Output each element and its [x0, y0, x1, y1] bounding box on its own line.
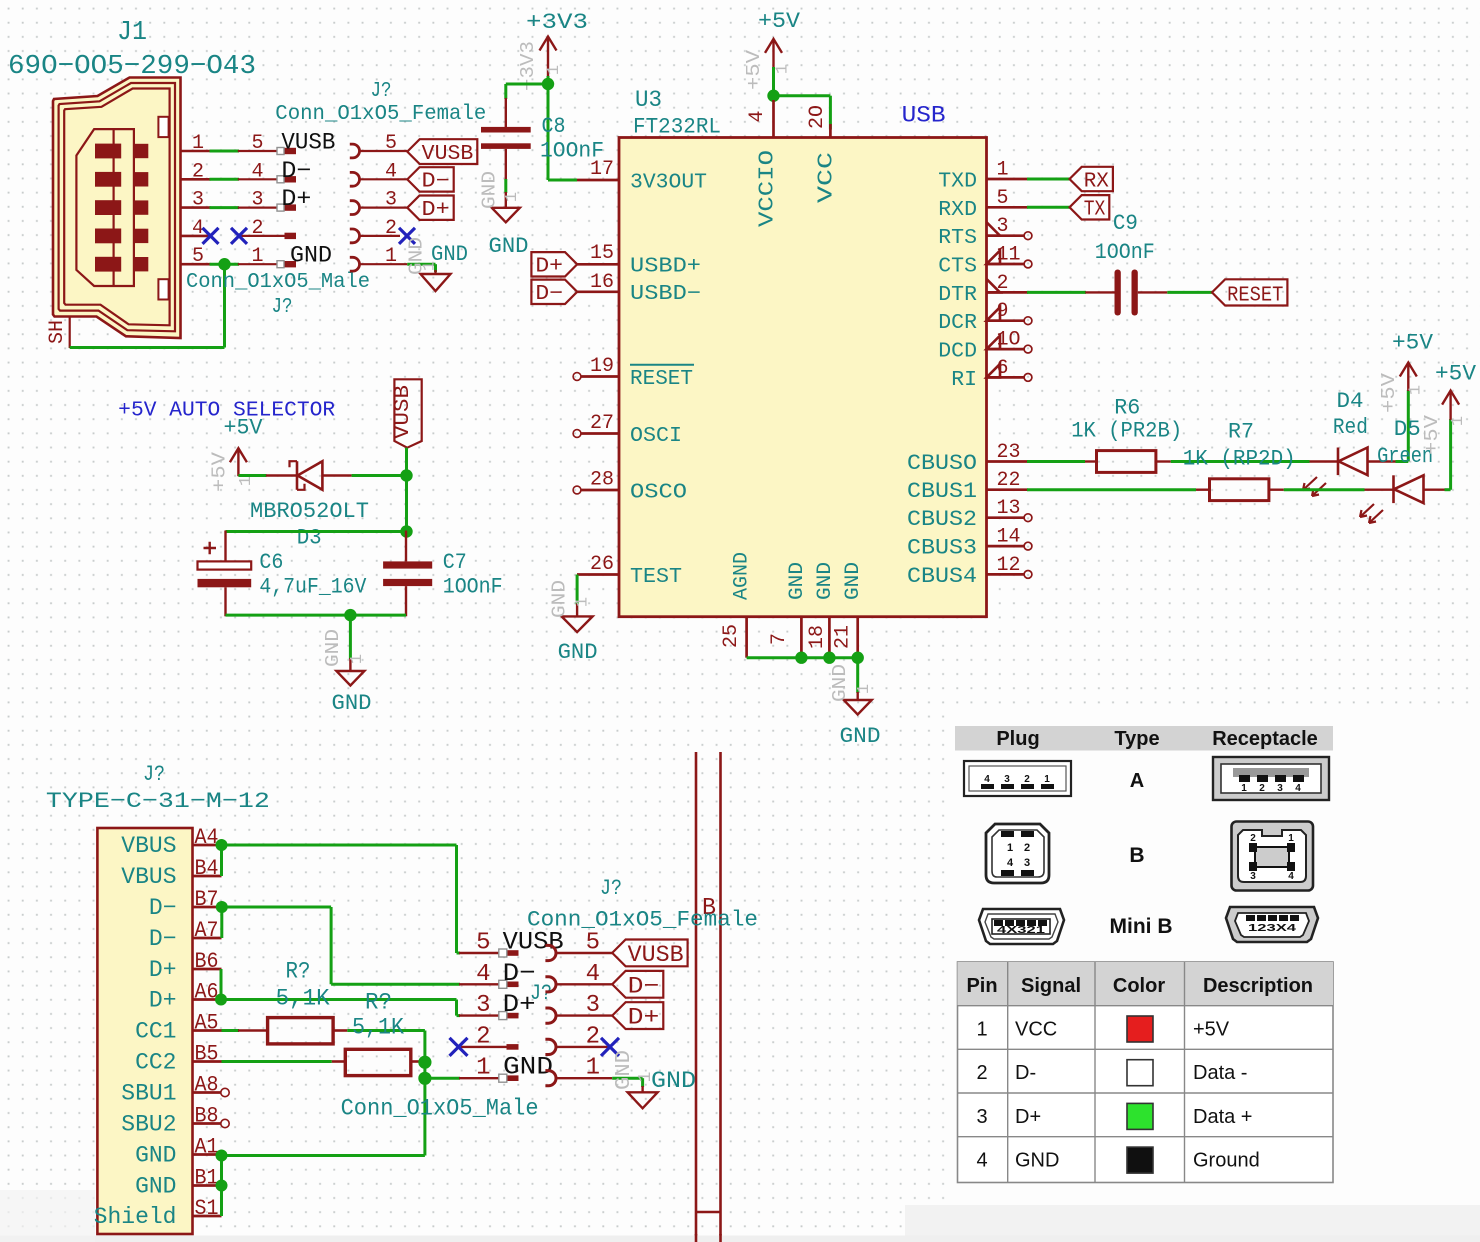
svg-text:4: 4 — [385, 160, 397, 183]
svg-text:3: 3 — [1250, 871, 1256, 882]
svg-text:VCC: VCC — [816, 152, 839, 203]
global label D- to pin16 — [531, 280, 577, 304]
svg-text:1: 1 — [476, 1055, 490, 1082]
svg-text:D+: D+ — [422, 199, 450, 222]
svg-text:+5V: +5V — [1392, 331, 1434, 356]
svg-text:RESET: RESET — [630, 368, 693, 391]
svg-text:S1: S1 — [195, 1196, 219, 1221]
IC U3 FT232RL body — [619, 138, 987, 617]
svg-text:Conn_O1xO5_Male: Conn_O1xO5_Male — [341, 1096, 539, 1122]
svg-text:Data +: Data + — [1193, 1106, 1252, 1128]
svg-text:4,7uF_16V: 4,7uF_16V — [259, 575, 367, 600]
wire CC1 to R? — [222, 1029, 240, 1032]
svg-text:2: 2 — [1024, 774, 1030, 785]
svg-text:1: 1 — [545, 65, 564, 75]
bottom margin band — [905, 1205, 1480, 1242]
svg-text:CTS: CTS — [938, 255, 977, 279]
svg-text:+5V: +5V — [758, 9, 801, 34]
svg-text:USB: USB — [902, 103, 946, 129]
svg-text:Red: Red — [1333, 415, 1368, 440]
svg-text:4: 4 — [1007, 857, 1014, 869]
svg-text:GND: GND — [135, 1143, 176, 1169]
svg-text:GND: GND — [786, 562, 809, 600]
svg-text:Description: Description — [1203, 975, 1313, 997]
svg-text:Signal: Signal — [1021, 975, 1081, 997]
svg-text:27: 27 — [590, 412, 614, 435]
svg-text:A6: A6 — [195, 980, 219, 1005]
svg-text:GND: GND — [332, 691, 372, 716]
svg-text:5: 5 — [251, 132, 263, 155]
wire R6 to D4 — [1171, 460, 1310, 463]
capacitor C9 100nF — [1085, 291, 1114, 293]
wire VUSB tag down to junctions — [405, 448, 408, 532]
svg-text:B5: B5 — [195, 1042, 219, 1067]
svg-text:D−: D− — [281, 158, 311, 184]
capacitor C8 100nF — [505, 98, 507, 127]
U3 pin 12 CBUS4 — [987, 573, 1025, 576]
svg-text:5: 5 — [476, 930, 490, 957]
svg-text:4: 4 — [1295, 783, 1301, 794]
svg-text:15: 15 — [590, 242, 614, 265]
svg-text:TYPE−C−31−M−12: TYPE−C−31−M−12 — [46, 789, 270, 814]
global label D- (bottom female) — [612, 971, 663, 998]
svg-text:Color: Color — [1113, 975, 1165, 997]
svg-text:1: 1 — [237, 476, 256, 486]
wire J1 pin2 to J2 pin4 — [210, 178, 240, 181]
svg-text:1: 1 — [1007, 842, 1013, 854]
wire J1 pin1 to J2 pin5 — [210, 150, 240, 153]
wire RXD to TX label — [1027, 206, 1071, 209]
svg-text:+5V: +5V — [1193, 1019, 1230, 1041]
svg-text:DCR: DCR — [938, 311, 977, 335]
wire TXD to RX label — [1027, 178, 1071, 181]
U3 pin 22 CBUS1 — [987, 488, 1029, 491]
connector J? TYPE-C-31-M-12 body — [97, 828, 192, 1234]
wire R7 to D5 — [1284, 488, 1365, 491]
wire VBUS A4 to male pin5 — [222, 844, 457, 847]
svg-text:69O−OO5−299−O43: 69O−OO5−299−O43 — [8, 52, 256, 82]
svg-text:5: 5 — [385, 132, 397, 155]
svg-text:5: 5 — [997, 187, 1009, 210]
U3 pin 23 CBUS0 — [987, 460, 1029, 463]
svg-text:Plug: Plug — [996, 728, 1039, 750]
svg-text:3: 3 — [476, 992, 490, 1019]
no-connect x female pin2 — [399, 228, 415, 244]
svg-text:R7: R7 — [1228, 420, 1254, 445]
svg-text:+5V: +5V — [1421, 414, 1443, 455]
power symbol GND (C8) — [505, 192, 507, 208]
TYPE-C pin B7 D− — [193, 906, 222, 909]
svg-text:MBRO52OLT: MBRO52OLT — [250, 499, 369, 524]
svg-text:J?: J? — [371, 80, 392, 103]
TYPE-C pin B5 CC2 — [193, 1060, 222, 1063]
svg-text:TX: TX — [1084, 199, 1106, 222]
resistor R? 5,1K (CC2) — [332, 1060, 346, 1063]
svg-text:7: 7 — [768, 633, 791, 645]
svg-text:GND: GND — [840, 724, 881, 749]
svg-text:SH: SH — [46, 320, 69, 344]
U3 pin 18 GND — [828, 617, 831, 658]
svg-text:1: 1 — [1044, 774, 1050, 785]
wire J1 SH to GND net — [70, 346, 225, 349]
svg-text:A1: A1 — [195, 1135, 219, 1160]
bus rung — [696, 1211, 721, 1213]
svg-text:+5V: +5V — [224, 416, 264, 441]
TYPE-C pin B4 VBUS — [193, 875, 222, 878]
svg-text:19: 19 — [590, 355, 614, 378]
wire C8 to GND — [504, 179, 507, 193]
svg-text:C8: C8 — [542, 114, 566, 139]
wire D3 to VUSB node — [352, 474, 406, 477]
svg-text:D+: D+ — [149, 988, 177, 1014]
svg-text:FT232RL: FT232RL — [633, 115, 721, 140]
svg-text:1: 1 — [997, 159, 1009, 182]
svg-text:GND: GND — [290, 243, 332, 269]
svg-text:A: A — [1130, 770, 1144, 792]
svg-text:1: 1 — [1449, 416, 1468, 426]
svg-text:A8: A8 — [195, 1073, 219, 1098]
svg-text:2: 2 — [976, 1062, 987, 1084]
power symbol GND (bottom female) — [641, 1086, 643, 1093]
wire ground bus under U3 — [747, 656, 858, 659]
svg-text:4: 4 — [586, 961, 600, 988]
power symbol GND (selector) — [349, 658, 351, 672]
wire D- B7-A7 tie — [220, 907, 223, 938]
svg-text:D−: D− — [149, 895, 177, 921]
svg-text:RI: RI — [951, 368, 977, 392]
svg-text:2: 2 — [1259, 783, 1265, 794]
svg-text:B6: B6 — [195, 949, 219, 974]
svg-text:GND: GND — [479, 171, 501, 209]
svg-text:J?: J? — [143, 762, 165, 787]
svg-text:5: 5 — [586, 930, 600, 957]
svg-text:TXD: TXD — [938, 170, 977, 194]
U3 pin 14 CBUS3 — [987, 545, 1025, 548]
usb pin table — [958, 962, 1334, 1183]
svg-text:C7: C7 — [443, 550, 467, 575]
svg-text:3: 3 — [586, 992, 600, 1019]
svg-text:OSCI: OSCI — [630, 425, 682, 448]
svg-text:Type: Type — [1114, 728, 1159, 750]
svg-text:1: 1 — [385, 245, 397, 268]
svg-text:D−: D− — [535, 283, 563, 306]
svg-text:C6: C6 — [259, 550, 283, 575]
svg-text:DTR: DTR — [938, 283, 977, 307]
svg-text:Conn_O1xO5_Female: Conn_O1xO5_Female — [527, 908, 758, 933]
usb type A receptacle drawing — [1213, 757, 1329, 800]
wire J1 pin3 to J2 pin3 — [210, 206, 240, 209]
U3 pin 10 DCD — [987, 348, 1025, 351]
global label VUSB (vertical) — [394, 379, 421, 447]
U3 pin 4 VCCIO — [772, 100, 775, 138]
wire R? CC1 out to junction — [347, 1029, 425, 1032]
wire D+ B6-A6 tie — [220, 969, 223, 1000]
svg-text:J?: J? — [530, 981, 552, 1006]
usb mini B plug drawing — [979, 909, 1064, 944]
diode D3 MBR0520LT (schottky) — [266, 474, 297, 476]
svg-text:D+: D+ — [628, 1005, 660, 1031]
svg-text:GND: GND — [135, 1174, 176, 1200]
no-connect x J1 pin4 — [203, 228, 219, 244]
connector J? Conn_01x05_Male (top) — [238, 150, 285, 152]
TYPE-C pin A7 D− — [193, 937, 222, 940]
U3 pin 25 AGND — [745, 617, 748, 658]
power symbol GND (TEST) — [576, 604, 578, 618]
svg-text:GND: GND — [1015, 1150, 1059, 1172]
svg-text:2O: 2O — [806, 105, 829, 129]
vertical bus line 2 lower end — [719, 1234, 722, 1242]
U3 pin 7 GND — [800, 617, 803, 658]
svg-text:DCD: DCD — [938, 340, 977, 364]
svg-text:4: 4 — [976, 1150, 987, 1172]
U3 pin 20 VCC — [829, 124, 832, 138]
svg-text:CBUSO: CBUSO — [907, 451, 977, 476]
svg-text:Data -: Data - — [1193, 1062, 1247, 1084]
LED D4 Red — [1310, 460, 1339, 462]
U3 pin 6 RI — [987, 376, 1025, 379]
svg-text:VCC: VCC — [1015, 1019, 1057, 1041]
svg-text:18: 18 — [806, 625, 829, 649]
svg-text:3: 3 — [1277, 783, 1283, 794]
svg-text:Receptacle: Receptacle — [1212, 728, 1318, 750]
svg-text:RX: RX — [1084, 170, 1110, 193]
U3 pin 21 GND — [856, 617, 859, 658]
global label TX — [1070, 195, 1110, 219]
connector J? Conn_01x05_Male (bottom) — [459, 952, 507, 954]
resistor R6 1K (PR2B) — [1085, 460, 1097, 462]
svg-text:1K (PR2B): 1K (PR2B) — [1071, 419, 1182, 444]
wire J1 pin5 to J2 pin1 (GND) — [210, 263, 240, 266]
TYPE-C pin B6 D+ — [193, 968, 222, 971]
svg-text:2: 2 — [1250, 833, 1256, 844]
svg-text:28: 28 — [590, 469, 614, 492]
svg-text:4: 4 — [1288, 871, 1294, 882]
wire D5 to +5V — [1445, 488, 1451, 491]
svg-text:1: 1 — [1288, 833, 1294, 844]
U3 pin 2 DTR — [987, 291, 1029, 294]
svg-text:3: 3 — [385, 189, 397, 212]
svg-text:21: 21 — [832, 625, 855, 649]
no-connect x J2-male pin2 — [231, 228, 247, 244]
svg-text:3: 3 — [1024, 857, 1030, 869]
label anchors bottom male — [499, 949, 507, 957]
svg-text:2: 2 — [385, 217, 397, 240]
svg-text:CBUS1: CBUS1 — [907, 479, 977, 504]
svg-text:5,1K: 5,1K — [276, 986, 330, 1012]
svg-text:1: 1 — [348, 654, 367, 664]
junction bottom GND — [344, 609, 356, 621]
svg-text:3: 3 — [1004, 774, 1010, 785]
global label RX — [1070, 167, 1113, 191]
global label VUSB (bottom female) — [612, 940, 687, 967]
svg-text:GND: GND — [842, 562, 865, 600]
svg-text:GND: GND — [651, 1068, 696, 1094]
svg-text:R?: R? — [286, 959, 311, 985]
wire junction to male pin1 GND — [425, 1077, 460, 1080]
svg-text:J?: J? — [600, 876, 622, 901]
svg-text:+3V3: +3V3 — [526, 10, 588, 35]
wire CC2 to R? — [222, 1060, 332, 1063]
resistor R7 1K (RP2D) — [1196, 489, 1210, 491]
svg-text:VCCIO: VCCIO — [757, 150, 780, 227]
svg-text:USBD+: USBD+ — [630, 256, 701, 279]
vertical bus line 1 — [695, 752, 698, 1242]
svg-text:R?: R? — [365, 990, 392, 1016]
svg-text:J?: J? — [272, 296, 293, 319]
svg-text:B8: B8 — [195, 1104, 219, 1129]
LED D5 Green — [1365, 489, 1394, 491]
svg-text:GND: GND — [431, 242, 468, 267]
wire C6/C7 bottom bus — [226, 614, 407, 617]
svg-text:13: 13 — [997, 497, 1021, 520]
svg-text:SBU1: SBU1 — [121, 1081, 176, 1107]
U3 pin 11 CTS — [987, 263, 1025, 266]
svg-text:CBUS4: CBUS4 — [907, 564, 977, 589]
svg-text:RXD: RXD — [938, 198, 977, 222]
svg-text:2: 2 — [586, 1023, 600, 1050]
wire +5V to D3 — [238, 474, 266, 477]
TYPE-C pin B8 SBU2 — [193, 1122, 222, 1125]
svg-text:2: 2 — [1024, 842, 1030, 854]
svg-text:16: 16 — [590, 271, 614, 294]
wire TEST to GND — [576, 575, 579, 605]
svg-text:1: 1 — [855, 684, 874, 694]
connector J1 690-005-299-043 (USB Mini-B) body — [53, 78, 181, 339]
svg-text:1: 1 — [586, 1055, 600, 1082]
svg-text:VBUS: VBUS — [121, 864, 176, 890]
junction CC nets — [418, 1056, 431, 1069]
svg-text:Ground: Ground — [1193, 1150, 1260, 1172]
U3 pin 17 3V3OUT — [577, 179, 619, 182]
svg-text:12: 12 — [997, 554, 1021, 577]
junction GND pins — [795, 652, 807, 664]
wire D4 to +5V — [1396, 460, 1409, 463]
svg-text:26: 26 — [590, 553, 614, 576]
svg-text:D−: D− — [628, 973, 660, 999]
svg-text:USBD−: USBD− — [630, 283, 701, 306]
junction D3/VUSB — [400, 469, 412, 481]
svg-text:GND: GND — [489, 234, 529, 259]
global label D+ (bottom female) — [612, 1002, 663, 1029]
wire +3V3 to C8 and pin 17 — [547, 76, 550, 180]
svg-text:+5V: +5V — [1378, 372, 1400, 413]
resistor R? 5,1K (CC1) — [238, 1029, 268, 1032]
svg-text:2: 2 — [192, 160, 204, 183]
svg-text:1: 1 — [976, 1019, 987, 1041]
usb type B plug drawing — [986, 824, 1049, 883]
svg-text:4: 4 — [251, 160, 263, 183]
wire C9 to RESET label — [1167, 291, 1212, 294]
wire to GND (selector) — [349, 615, 352, 659]
capacitor C6 4,7uF_16V (polarized) — [224, 531, 226, 562]
svg-text:1: 1 — [574, 597, 593, 607]
svg-text:B7: B7 — [195, 887, 219, 912]
vertical bus line 2 — [719, 752, 722, 1242]
usb type A plug drawing — [964, 761, 1071, 796]
svg-text:1K (RP2D): 1K (RP2D) — [1183, 447, 1296, 472]
svg-text:C9: C9 — [1113, 211, 1138, 236]
svg-text:D+: D+ — [535, 256, 563, 279]
svg-text:1OOnF: 1OOnF — [1095, 240, 1155, 265]
svg-text:1: 1 — [1241, 783, 1247, 794]
power symbol GND (top pair) — [434, 270, 436, 274]
U3 pin 3 RTS — [987, 234, 1025, 237]
svg-text:Mini B: Mini B — [1110, 915, 1173, 938]
global label VUSB (top female) — [407, 139, 477, 164]
U3 pin 27 OSCI — [581, 432, 619, 435]
svg-text:Pin: Pin — [966, 975, 997, 997]
svg-text:4: 4 — [476, 961, 490, 988]
junction B7 — [216, 901, 228, 913]
junction A1 — [216, 1150, 228, 1162]
svg-text:A5: A5 — [195, 1011, 219, 1036]
wire GND A1 row — [222, 1154, 425, 1157]
usb pinout reference image — [946, 712, 1480, 1208]
svg-text:R6: R6 — [1114, 396, 1140, 421]
svg-text:D−: D− — [422, 171, 450, 194]
svg-text:4: 4 — [746, 110, 769, 122]
svg-text:4X321: 4X321 — [997, 925, 1046, 936]
U3 pin 19 /RESET — [581, 375, 619, 378]
svg-text:OSCO: OSCO — [630, 482, 687, 505]
global label RESET — [1212, 279, 1287, 305]
U3 pin 15 USBD+ — [577, 263, 619, 266]
usb mini B receptacle drawing — [1226, 907, 1318, 942]
svg-text:J1: J1 — [117, 18, 147, 48]
U3 pin 13 CBUS2 — [987, 516, 1025, 519]
U3 pin 16 USBD- — [577, 290, 619, 293]
svg-text:3: 3 — [251, 189, 263, 212]
svg-text:1: 1 — [251, 245, 263, 268]
svg-text:GND: GND — [549, 580, 571, 618]
junction +5V — [767, 90, 779, 102]
svg-text:23: 23 — [997, 441, 1021, 464]
svg-text:VUSB: VUSB — [422, 143, 474, 166]
svg-text:D−: D− — [149, 926, 177, 952]
junction A6 — [215, 994, 227, 1006]
svg-text:VUSB: VUSB — [281, 130, 335, 156]
svg-text:D4: D4 — [1337, 389, 1364, 414]
capacitor C7 100nF — [405, 531, 407, 562]
svg-text:22: 22 — [997, 469, 1021, 492]
svg-text:VUSB: VUSB — [392, 385, 415, 439]
svg-text:TEST: TEST — [630, 566, 682, 589]
svg-text:+5V: +5V — [743, 49, 765, 90]
no-connect x bottom male pin2 — [450, 1038, 468, 1056]
junction SH/GND — [218, 258, 230, 270]
svg-text:D+: D+ — [149, 957, 177, 983]
svg-text:4: 4 — [984, 774, 990, 785]
svg-text:B1: B1 — [195, 1166, 219, 1191]
svg-text:GND: GND — [503, 1053, 553, 1082]
svg-text:3: 3 — [976, 1106, 987, 1128]
svg-text:RTS: RTS — [938, 226, 977, 250]
wire bottom female GND — [612, 1077, 642, 1080]
J1 pins 1-5 — [181, 150, 211, 153]
TYPE-C pin A5 CC1 — [193, 1029, 222, 1032]
svg-text:AGND: AGND — [731, 552, 754, 600]
wire D+ A6 to male pin3 — [221, 998, 457, 1001]
wire CBUS0 to R6 — [1027, 460, 1085, 463]
TYPE-C pin A6 D+ — [193, 998, 222, 1001]
svg-text:VBUS: VBUS — [121, 833, 176, 859]
svg-text:1: 1 — [1407, 385, 1426, 395]
J1 pin SH — [69, 317, 71, 349]
svg-text:2: 2 — [476, 1023, 490, 1050]
global label D+ (top female) — [407, 196, 453, 220]
J1 contact pads — [95, 144, 121, 159]
U3 pin 5 RXD — [987, 206, 1029, 209]
